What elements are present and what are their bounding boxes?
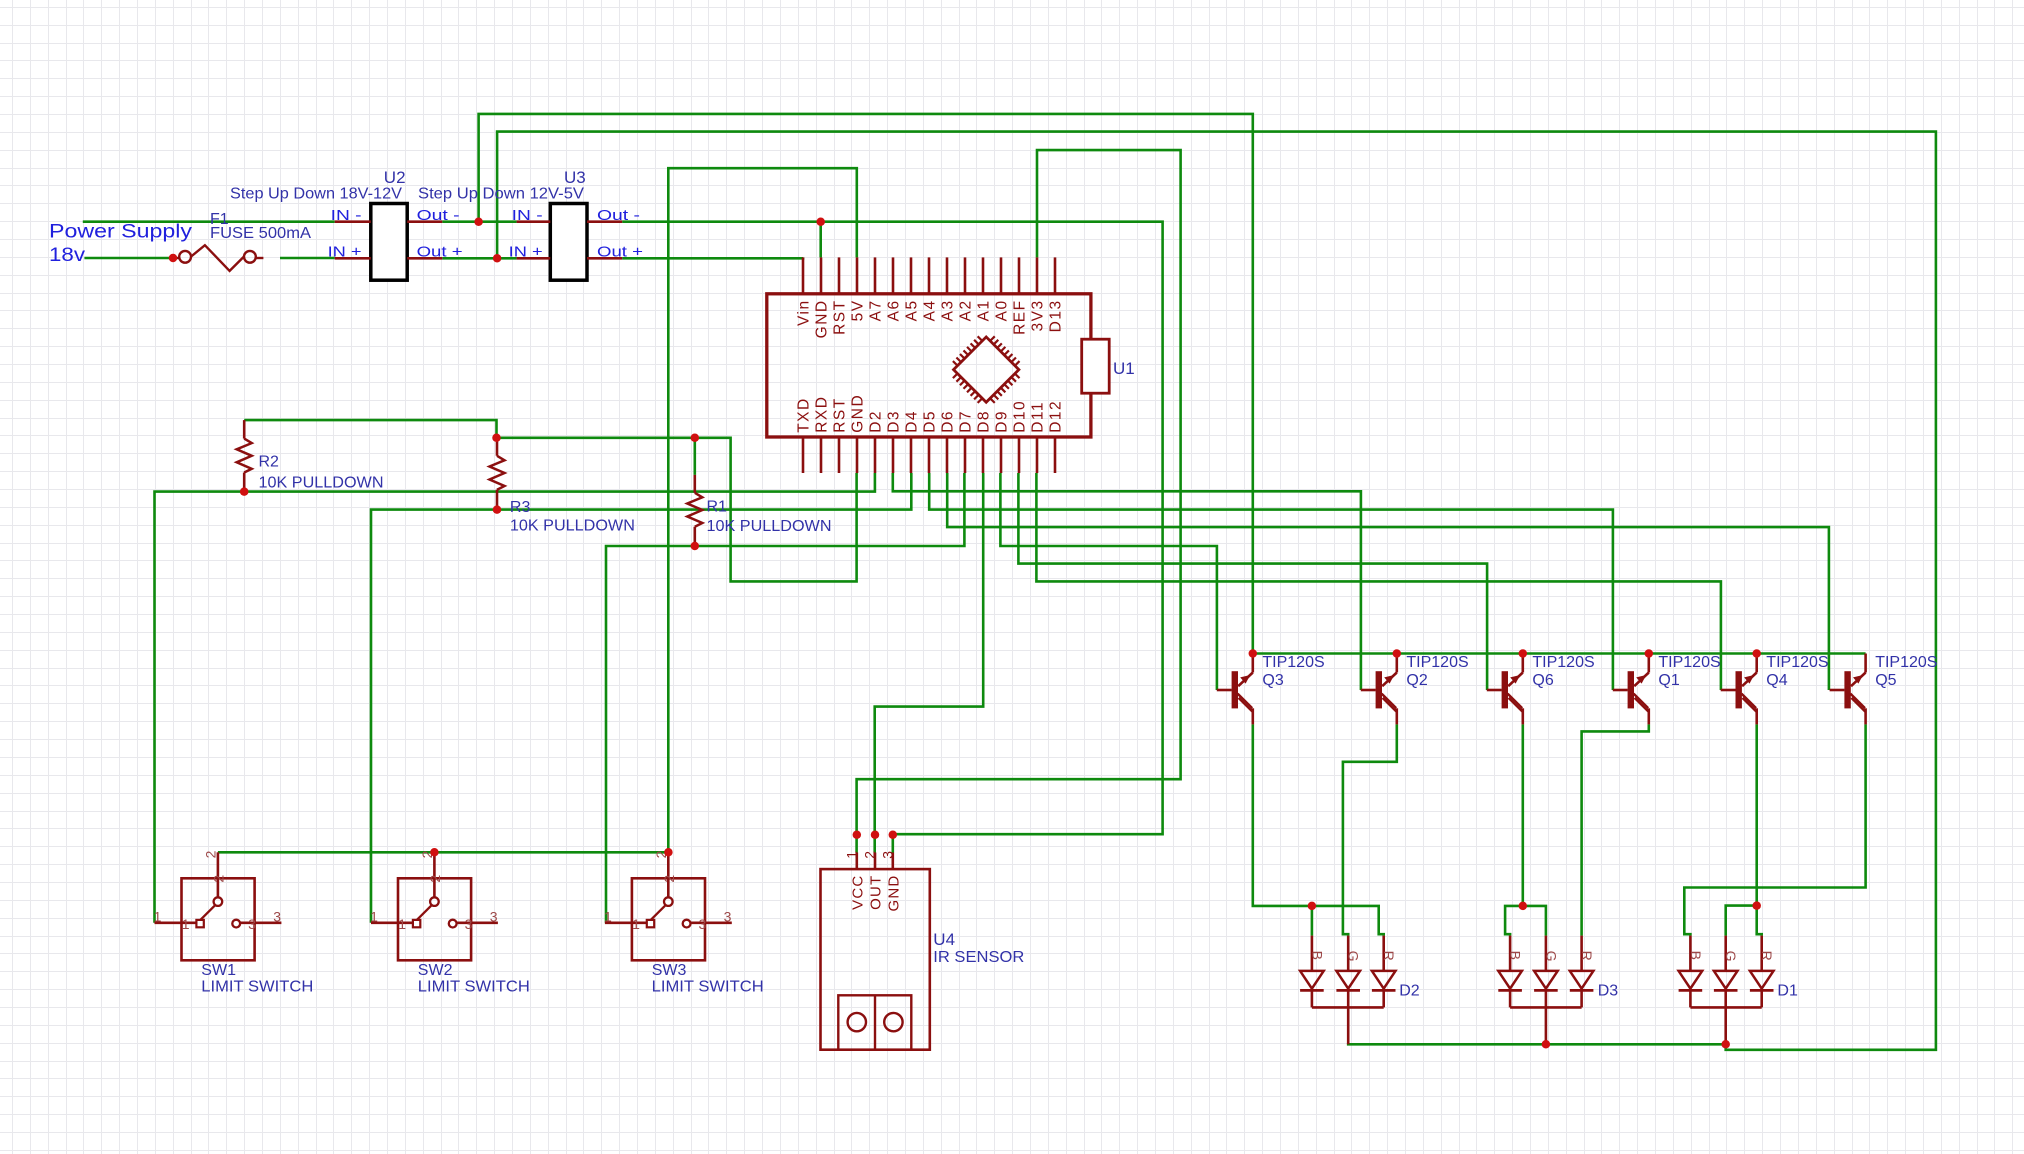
wire net D4 - SW2 - R3 xyxy=(371,473,911,923)
svg-text:IN -: IN - xyxy=(512,208,543,224)
led D1 red diode xyxy=(1750,936,1774,1008)
junction at 434.4,852.3 xyxy=(430,848,439,857)
svg-text:Power Supply: Power Supply xyxy=(49,221,192,243)
svg-text:R3: R3 xyxy=(510,499,531,516)
svg-text:TIP120S: TIP120S xyxy=(1658,654,1720,671)
svg-text:A0: A0 xyxy=(993,299,1010,321)
svg-text:A7: A7 xyxy=(867,299,884,321)
svg-text:GND: GND xyxy=(849,394,866,433)
svg-text:Out +: Out + xyxy=(417,244,463,260)
led D3 blue diode xyxy=(1498,936,1522,1008)
svg-text:1: 1 xyxy=(182,916,190,932)
svg-text:D9: D9 xyxy=(993,410,1010,433)
converter U2 xyxy=(335,204,443,281)
svg-text:2: 2 xyxy=(202,850,218,858)
svg-text:3: 3 xyxy=(724,909,732,925)
wire 5V net U1 5V pin to switch common rail xyxy=(668,168,857,852)
svg-text:1: 1 xyxy=(604,909,612,925)
wire 12V+ loop to LED return bus xyxy=(497,132,1936,1050)
svg-text:SW3: SW3 xyxy=(652,962,687,979)
transistor Q1 TIP120S xyxy=(1613,654,1649,725)
wire Q6 emitter to LED D3 feed xyxy=(1522,724,1525,906)
svg-text:3V3: 3V3 xyxy=(1029,299,1046,331)
svg-text:TIP120S: TIP120S xyxy=(1875,654,1937,671)
svg-text:RST: RST xyxy=(831,397,848,433)
wire net D3 to Q2 base xyxy=(893,473,1361,690)
junction at 1648.8,653.5 xyxy=(1645,649,1654,658)
svg-text:SW1: SW1 xyxy=(201,962,236,979)
svg-text:R: R xyxy=(1381,951,1397,961)
transistor Q5 TIP120S xyxy=(1830,654,1866,725)
svg-text:A1: A1 xyxy=(975,299,992,321)
wire U2 Out- to U3 IN- xyxy=(442,220,516,223)
svg-text:TIP120S: TIP120S xyxy=(1766,654,1828,671)
switch SW1 LIMIT SWITCH xyxy=(155,852,282,960)
label Q6 TIP120S xyxy=(1532,654,1594,689)
led D3 green diode xyxy=(1534,936,1558,1008)
junction at 820.7,221.7 xyxy=(816,217,825,226)
svg-text:D1: D1 xyxy=(1777,983,1798,1000)
junction at 694.8,546.0 xyxy=(691,542,700,551)
svg-text:2: 2 xyxy=(661,875,677,883)
wire power supply positive to fuse F1 xyxy=(84,257,173,260)
wire net D2 - SW1 - R2 xyxy=(155,473,875,923)
svg-text:3: 3 xyxy=(699,916,707,932)
led D2 green diode xyxy=(1336,936,1360,1008)
led D1 green diode xyxy=(1714,936,1738,1008)
wire U2 Out+ to U3 IN+ xyxy=(442,257,516,260)
led D1 blue diode xyxy=(1679,936,1703,1008)
junction at 1725.7,1044.3 xyxy=(1721,1040,1730,1049)
junction at 892.8,834.8 xyxy=(889,831,898,840)
led D2 red diode xyxy=(1372,936,1396,1008)
wire LED D2 blue anode drop xyxy=(1311,906,1314,936)
svg-text:IR SENSOR: IR SENSOR xyxy=(933,949,1024,966)
svg-text:TIP120S: TIP120S xyxy=(1532,654,1594,671)
wire Q4 emitter to LED D1 feed xyxy=(1755,724,1758,905)
label Q5 TIP120S xyxy=(1875,654,1937,689)
wire Q2 emitter to LED D2 green anode xyxy=(1343,724,1397,935)
wire R2 top to pulldown GND bus xyxy=(244,420,496,438)
transistor Q3 TIP120S xyxy=(1217,654,1253,725)
svg-text:D4: D4 xyxy=(903,410,920,433)
svg-text:B: B xyxy=(1688,951,1704,960)
junction at 1522.8,905.9 xyxy=(1519,902,1528,911)
svg-text:Out -: Out - xyxy=(597,208,640,224)
svg-text:LIMIT SWITCH: LIMIT SWITCH xyxy=(652,978,764,995)
junction at 173.0,258.0 xyxy=(169,254,178,263)
wire LED D1 red anode branch xyxy=(1757,906,1762,936)
wire net D6 to Q5 base xyxy=(947,473,1829,690)
svg-text:RXD: RXD xyxy=(813,396,830,433)
svg-text:Q2: Q2 xyxy=(1406,672,1427,689)
svg-text:3: 3 xyxy=(490,909,498,925)
svg-text:R: R xyxy=(1579,951,1595,961)
svg-text:R1: R1 xyxy=(707,499,728,516)
transistor Q6 TIP120S xyxy=(1487,654,1523,725)
junction at 1311.9,905.9 xyxy=(1308,902,1317,911)
svg-text:SW2: SW2 xyxy=(418,962,453,979)
svg-text:Out -: Out - xyxy=(417,208,460,224)
svg-text:1: 1 xyxy=(154,909,162,925)
svg-text:TIP120S: TIP120S xyxy=(1262,654,1324,671)
fuse F1 xyxy=(173,245,263,271)
junction at 478.6,221.7 xyxy=(474,217,483,226)
svg-text:LIMIT SWITCH: LIMIT SWITCH xyxy=(201,978,313,995)
mcu U1 usb connector xyxy=(1082,339,1110,393)
svg-text:B: B xyxy=(1309,951,1325,960)
svg-text:D10: D10 xyxy=(1011,400,1028,433)
svg-text:D3: D3 xyxy=(885,410,902,433)
wire net D9 to Q3 base xyxy=(1000,473,1217,690)
led D3 cathode bus xyxy=(1510,1007,1582,1044)
svg-text:GND: GND xyxy=(885,875,902,912)
svg-text:U3: U3 xyxy=(564,168,586,187)
wire net D10 to Q6 base xyxy=(1018,473,1487,690)
svg-text:5V: 5V xyxy=(849,299,866,321)
wire LED cathode return bus xyxy=(1348,1043,1726,1044)
wire U3 Out+ to U1 Vin xyxy=(622,256,803,259)
svg-text:D8: D8 xyxy=(975,410,992,433)
led D2 cathode bus xyxy=(1312,1007,1384,1044)
svg-text:D2: D2 xyxy=(1399,983,1420,1000)
svg-text:IN -: IN - xyxy=(331,208,362,224)
wire 12V- branch up over to Q collector rail xyxy=(479,114,1253,654)
svg-text:1: 1 xyxy=(632,916,640,932)
wire LED D2 red anode branch xyxy=(1312,906,1384,936)
svg-text:2: 2 xyxy=(427,875,443,883)
wire LED D3 blue anode branch xyxy=(1505,906,1523,936)
wire transistor collector rail xyxy=(1253,652,1866,655)
svg-text:A5: A5 xyxy=(903,299,920,321)
svg-text:OUT: OUT xyxy=(868,875,885,910)
svg-text:Q5: Q5 xyxy=(1875,672,1896,689)
svg-text:U4: U4 xyxy=(933,930,955,949)
svg-text:G: G xyxy=(1543,951,1559,962)
switch SW3 LIMIT SWITCH xyxy=(605,852,732,960)
junction at 497.0,509.6 xyxy=(493,505,502,513)
junction at 1545.9,1044.3 xyxy=(1542,1040,1551,1049)
svg-text:1: 1 xyxy=(370,909,378,925)
junction at 694.8,437.8 xyxy=(691,434,700,443)
label Power Supply 18v xyxy=(49,221,192,266)
svg-text:Out +: Out + xyxy=(597,244,643,260)
switch SW2 LIMIT SWITCH xyxy=(371,852,498,960)
svg-text:D6: D6 xyxy=(939,410,956,433)
wire LED D3 green anode branch xyxy=(1523,906,1546,936)
label Q2 TIP120S xyxy=(1406,654,1468,689)
svg-text:Q1: Q1 xyxy=(1658,672,1679,689)
svg-text:R2: R2 xyxy=(259,454,280,471)
svg-text:10K PULLDOWN: 10K PULLDOWN xyxy=(707,518,832,535)
svg-text:3: 3 xyxy=(465,916,473,932)
svg-text:U1: U1 xyxy=(1113,359,1135,378)
svg-text:LIMIT SWITCH: LIMIT SWITCH xyxy=(418,978,530,995)
label Q1 TIP120S xyxy=(1658,654,1720,689)
mcu U1 chip glyph xyxy=(944,328,1028,412)
resistor R2 xyxy=(237,420,252,492)
wire switch pin2 rail xyxy=(218,851,669,854)
svg-text:FUSE 500mA: FUSE 500mA xyxy=(210,225,311,242)
junction at 1396.8,653.5 xyxy=(1393,649,1402,658)
svg-text:D7: D7 xyxy=(957,410,974,433)
svg-text:1: 1 xyxy=(843,851,859,859)
resistor R3 xyxy=(490,438,505,510)
mcu U1 body xyxy=(767,257,1091,473)
converter U3 xyxy=(517,204,623,281)
svg-text:U2: U2 xyxy=(384,168,406,187)
svg-text:D2: D2 xyxy=(867,410,884,433)
transistor Q4 TIP120S xyxy=(1721,654,1757,725)
svg-text:TXD: TXD xyxy=(795,397,812,433)
junction at 856.8,834.8 xyxy=(853,831,862,840)
svg-text:D5: D5 xyxy=(921,410,938,433)
wire Q5 emitter to LED D1 blue anode xyxy=(1684,724,1865,935)
svg-text:Step Up Down 12V-5V: Step Up Down 12V-5V xyxy=(418,185,584,202)
svg-text:IN +: IN + xyxy=(328,244,362,260)
wire net D11 to Q4 base xyxy=(1036,473,1721,690)
svg-text:D12: D12 xyxy=(1047,400,1064,433)
junction at 496.5,437.8 xyxy=(492,434,501,443)
svg-text:D11: D11 xyxy=(1029,401,1046,433)
svg-text:A2: A2 xyxy=(957,299,974,321)
label Q4 TIP120S xyxy=(1766,654,1828,689)
svg-text:Step Up Down 18V-12V: Step Up Down 18V-12V xyxy=(230,185,402,202)
wire fuse F1 to U2 IN+ xyxy=(280,257,335,260)
svg-text:3: 3 xyxy=(879,851,895,859)
wire U3 Out- to IR sensor GND run xyxy=(622,222,1162,853)
junction at 497.1,258.3 xyxy=(493,254,502,263)
wire pulldown GND bus to U1 GND bottom pin xyxy=(497,438,857,582)
junction at 244.2,491.6 xyxy=(240,487,249,496)
svg-text:TIP120S: TIP120S xyxy=(1406,654,1468,671)
junction at 1756.7,905.6 xyxy=(1752,901,1761,910)
svg-text:2: 2 xyxy=(862,851,878,859)
svg-text:3: 3 xyxy=(248,916,256,932)
svg-text:D3: D3 xyxy=(1598,983,1619,1000)
wire Q3 emitter to LED D2 feed xyxy=(1253,724,1312,906)
junction at 875.0,834.8 xyxy=(871,831,880,840)
svg-text:B: B xyxy=(1508,951,1524,960)
wire 3V3 to IR sensor VCC xyxy=(857,150,1181,852)
svg-text:REF: REF xyxy=(1011,299,1028,335)
svg-text:A3: A3 xyxy=(939,299,956,321)
wire net D7 - SW3 - R1 xyxy=(606,473,964,923)
led D2 blue diode xyxy=(1300,936,1324,1008)
wire 12V- to U1 GND top pin xyxy=(819,222,822,258)
led D1 cathode bus xyxy=(1690,1007,1761,1044)
wire net D8 to IR sensor OUT xyxy=(875,473,984,853)
svg-text:2: 2 xyxy=(210,875,226,883)
svg-text:G: G xyxy=(1723,951,1739,962)
led D3 red diode xyxy=(1570,936,1594,1008)
svg-text:D13: D13 xyxy=(1047,299,1064,332)
svg-text:1: 1 xyxy=(398,916,406,932)
svg-text:G: G xyxy=(1346,951,1362,962)
junction at 1756.7,653.5 xyxy=(1752,649,1761,658)
svg-text:A4: A4 xyxy=(921,299,938,321)
junction at 1252.8,653.5 xyxy=(1249,649,1258,658)
svg-text:RST: RST xyxy=(831,299,848,335)
svg-text:18v: 18v xyxy=(49,244,85,266)
label Q3 TIP120S xyxy=(1262,654,1324,689)
svg-text:3: 3 xyxy=(273,909,281,925)
svg-text:Vin: Vin xyxy=(795,299,812,326)
svg-text:GND: GND xyxy=(813,299,830,338)
svg-text:R: R xyxy=(1759,951,1775,961)
svg-text:IN +: IN + xyxy=(509,244,543,260)
svg-text:VCC: VCC xyxy=(849,875,866,910)
wire net D5 to Q1 base xyxy=(929,473,1613,690)
svg-text:10K PULLDOWN: 10K PULLDOWN xyxy=(510,518,635,535)
transistor Q2 TIP120S xyxy=(1361,654,1397,725)
resistor R1 xyxy=(687,475,702,546)
junction at 1522.8,653.5 xyxy=(1519,649,1528,658)
wire LED D1 green anode branch xyxy=(1726,906,1757,936)
svg-text:Q6: Q6 xyxy=(1532,672,1553,689)
sensor U4 IR SENSOR body xyxy=(821,853,930,1050)
junction at 668.4,852.3 xyxy=(664,848,673,857)
svg-text:Q3: Q3 xyxy=(1262,672,1283,689)
wire Q1 emitter to LED D3 red anode xyxy=(1582,724,1649,935)
wire R1 top stub xyxy=(693,438,696,475)
svg-text:10K PULLDOWN: 10K PULLDOWN xyxy=(259,474,384,491)
svg-text:A6: A6 xyxy=(885,299,902,321)
svg-text:Q4: Q4 xyxy=(1766,672,1787,689)
wire power supply negative to U2 IN- xyxy=(83,220,335,223)
